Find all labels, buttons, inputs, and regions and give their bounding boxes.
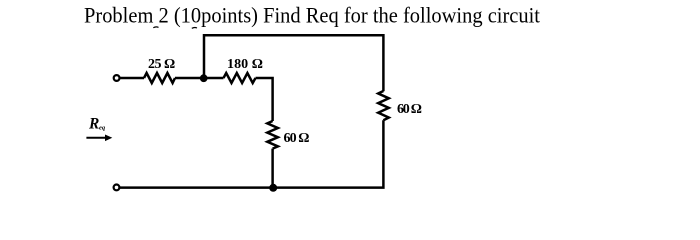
wire: 180ohm to middle branch corner and down (256, 78, 273, 121)
svg-text:R: R (88, 116, 99, 133)
wire: middle 60ohm down to bottom (271, 149, 274, 188)
resistor middle 60ohm (267, 121, 278, 149)
resistor right 60ohm (378, 91, 389, 120)
resistor R 25ohm (144, 73, 175, 83)
svg-text:eq: eq (99, 125, 106, 132)
svg-text:25 Ω: 25 Ω (148, 57, 175, 72)
wire: top loop from node up, across, down to right resistor (204, 35, 383, 91)
svg-text:60 Ω: 60 Ω (397, 102, 422, 117)
squiggle under 0 (192, 26, 197, 29)
svg-text:60 Ω: 60 Ω (284, 131, 310, 146)
wire: top-left terminal to 25ohm (120, 77, 144, 80)
wire: 25ohm to node (175, 77, 204, 80)
resistor R 180ohm (224, 73, 256, 83)
squiggle under 2 (153, 26, 158, 29)
terminal circle top-left (114, 75, 120, 81)
wire: right 60ohm down to bottom-right corner and across bottom (120, 120, 383, 187)
arrow Req (86, 137, 105, 139)
node junction dot top (200, 74, 208, 82)
wire: node to 180ohm (204, 77, 224, 80)
svg-text:Problem 2 (10points) Find Req: Problem 2 (10points) Find Req for the fo… (84, 3, 540, 28)
node junction dot bottom (269, 184, 277, 192)
terminal circle bottom-left (114, 185, 120, 191)
svg-text:180 Ω: 180 Ω (227, 57, 263, 72)
